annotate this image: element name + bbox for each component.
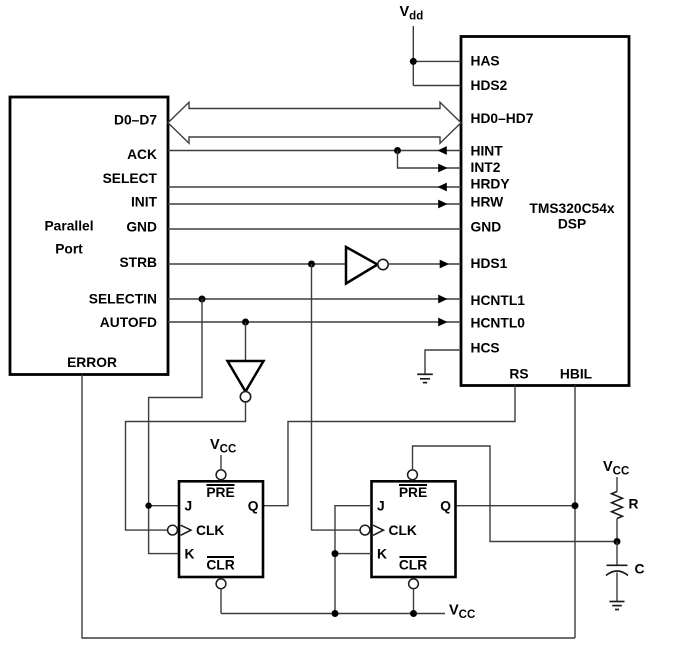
ground (HCS) bbox=[417, 374, 433, 382]
capacitor C bbox=[606, 565, 628, 575]
arrowhead HDS1 (right) bbox=[440, 260, 449, 269]
wire FF2 PRE to RC node bbox=[413, 446, 618, 542]
svg-text:GND: GND bbox=[471, 219, 502, 234]
junction STRB bbox=[308, 261, 315, 268]
wire SELECTIN to J1/K1 bbox=[149, 299, 202, 554]
arrowhead HCNTL1 (right) bbox=[438, 295, 447, 304]
parallel port name label bbox=[44, 218, 93, 256]
svg-text:HINT: HINT bbox=[471, 143, 504, 158]
svg-text:INIT: INIT bbox=[131, 195, 158, 210]
svg-text:DSP: DSP bbox=[558, 216, 586, 231]
wire AUTOFD to inverter U2 bbox=[245, 322, 247, 361]
arrowhead HRDY (left) bbox=[438, 183, 447, 192]
wire Vdd vertical bbox=[412, 26, 414, 86]
DSP box TMS320C54x bbox=[461, 37, 629, 386]
svg-text:HCNTL0: HCNTL0 bbox=[471, 315, 526, 330]
svg-text:PRE: PRE bbox=[206, 485, 234, 500]
svg-text:GND: GND bbox=[126, 219, 157, 234]
VCC label at R bbox=[603, 459, 629, 478]
svg-text:HCS: HCS bbox=[471, 340, 500, 355]
svg-text:HD0–HD7: HD0–HD7 bbox=[471, 111, 534, 126]
svg-text:INT2: INT2 bbox=[471, 160, 501, 175]
svg-text:CLK: CLK bbox=[196, 523, 224, 538]
junction Q2/HBIL bbox=[572, 502, 579, 509]
junction ACK/INT2 bbox=[394, 147, 401, 154]
FF2 PRE bubble bbox=[408, 470, 418, 480]
DSP name label bbox=[529, 201, 614, 232]
svg-text:J: J bbox=[377, 499, 385, 514]
inverter U1 bbox=[346, 247, 388, 284]
arrowhead HCNTL0 (right) bbox=[438, 318, 447, 327]
FF1 PRE bubble bbox=[216, 470, 226, 480]
wire K2 bbox=[335, 553, 372, 555]
svg-text:ERROR: ERROR bbox=[67, 355, 117, 370]
svg-text:HCNTL1: HCNTL1 bbox=[471, 293, 526, 308]
svg-text:Port: Port bbox=[55, 241, 83, 256]
wire SELECT to HRDY bbox=[168, 186, 461, 188]
arrowhead HRW (right) bbox=[438, 200, 447, 209]
svg-text:PRE: PRE bbox=[399, 485, 427, 500]
arrowhead HINT (left) bbox=[438, 146, 447, 155]
inverter U2 (pointing down) bbox=[228, 361, 264, 402]
wire GND to GND bbox=[168, 228, 461, 230]
ground (C) bbox=[610, 602, 625, 610]
wire R to RC node bbox=[616, 519, 618, 542]
wire INT2 branch bbox=[398, 151, 462, 169]
wire ERROR to bottom rail to HBIL bbox=[82, 375, 575, 639]
svg-text:RS: RS bbox=[509, 366, 528, 381]
resistor R bbox=[612, 492, 623, 519]
parallel port box bbox=[10, 97, 168, 375]
wire ACK to HINT bbox=[168, 150, 461, 152]
junction AUTOFD bbox=[242, 319, 249, 326]
wire FF2 CLR to VCC rail bbox=[413, 589, 415, 614]
svg-text:HBIL: HBIL bbox=[560, 366, 592, 381]
svg-text:Q: Q bbox=[248, 499, 259, 514]
wire AUTOFD to HCNTL0 bbox=[168, 321, 461, 323]
svg-text:SELECT: SELECT bbox=[103, 171, 158, 186]
wire RC node to capacitor C bbox=[616, 542, 618, 565]
wire STRB to CLK2 bbox=[312, 264, 360, 530]
svg-text:ACK: ACK bbox=[127, 147, 157, 162]
FF2 label PRE with overline bbox=[399, 485, 427, 500]
svg-text:Q: Q bbox=[440, 499, 451, 514]
wire J1 bbox=[149, 505, 179, 507]
svg-text:TMS320C54x: TMS320C54x bbox=[529, 201, 614, 216]
junction K2 bbox=[332, 550, 339, 557]
svg-text:HRDY: HRDY bbox=[471, 176, 510, 191]
wire FF1 CLR to VCC rail bbox=[220, 589, 222, 614]
junction rail/CLR2 bbox=[410, 610, 417, 617]
svg-text:SELECTIN: SELECTIN bbox=[89, 291, 157, 306]
FF1 clock wedge bbox=[181, 525, 191, 535]
FF1 label CLR with overline bbox=[206, 557, 234, 572]
FF1 CLR bubble bbox=[216, 579, 226, 589]
wire VCC to FF1 PRE bbox=[220, 455, 222, 470]
svg-text:HRW: HRW bbox=[471, 194, 505, 209]
J-K flip-flop FF1 box bbox=[179, 481, 263, 577]
junction Vdd/HAS bbox=[410, 58, 417, 65]
svg-text:K: K bbox=[185, 546, 195, 561]
FF1 label PRE with overline bbox=[206, 485, 234, 500]
svg-text:CLK: CLK bbox=[389, 523, 417, 538]
svg-text:AUTOFD: AUTOFD bbox=[100, 315, 157, 330]
svg-text:CLR: CLR bbox=[206, 557, 234, 572]
VCC label at FF1 PRE bbox=[210, 437, 236, 456]
wire INIT to HRW bbox=[168, 203, 461, 205]
bus D0–D7 to HD0–HD7 double arrow bbox=[168, 102, 461, 143]
wire SELECTIN to HCNTL1 bbox=[168, 298, 461, 300]
wire J2/K2 tie to VCC rail bbox=[335, 506, 372, 614]
svg-text:J: J bbox=[185, 499, 193, 514]
wire STRB to inverter U1 bbox=[168, 263, 346, 265]
svg-text:K: K bbox=[377, 546, 387, 561]
junction RC node bbox=[614, 538, 621, 545]
wire HCS to ground bbox=[425, 350, 461, 374]
junction rail/J2K2 bbox=[332, 610, 339, 617]
svg-text:STRB: STRB bbox=[119, 255, 157, 270]
svg-text:HDS2: HDS2 bbox=[471, 78, 508, 93]
wire U1 output to HDS1 bbox=[388, 263, 461, 265]
junction J1 bbox=[145, 503, 151, 509]
wire HBIL vertical bbox=[574, 386, 576, 639]
Vdd supply label bbox=[400, 4, 424, 23]
FF2 CLK bubble bbox=[360, 525, 370, 535]
wire U2 output to CLK1 bbox=[126, 402, 246, 530]
wire HAS bbox=[413, 60, 461, 62]
FF1 CLK bubble bbox=[168, 525, 178, 535]
svg-text:CLR: CLR bbox=[399, 557, 427, 572]
svg-text:HDS1: HDS1 bbox=[471, 256, 508, 271]
VCC label at rail bbox=[449, 603, 475, 622]
wire FF1 Q to RS bbox=[263, 386, 515, 506]
FF2 clock wedge bbox=[373, 525, 383, 535]
wire FF2 Q to HBIL bbox=[456, 505, 576, 507]
svg-text:R: R bbox=[629, 497, 639, 512]
svg-text:HAS: HAS bbox=[471, 53, 500, 68]
FF2 label CLR with overline bbox=[399, 557, 427, 572]
FF2 CLR bubble bbox=[409, 579, 419, 589]
J-K flip-flop FF2 box bbox=[372, 481, 456, 577]
svg-text:C: C bbox=[635, 561, 645, 576]
svg-text:D0–D7: D0–D7 bbox=[114, 113, 157, 128]
wire VCC to resistor R bbox=[616, 477, 618, 492]
junction SELECTIN bbox=[199, 296, 206, 303]
wire HDS2 bbox=[413, 85, 461, 87]
arrowhead INT2 (right) bbox=[438, 164, 447, 173]
wire VCC rail bbox=[221, 613, 445, 615]
wire C to ground bbox=[616, 573, 618, 602]
svg-text:Parallel: Parallel bbox=[44, 218, 93, 233]
